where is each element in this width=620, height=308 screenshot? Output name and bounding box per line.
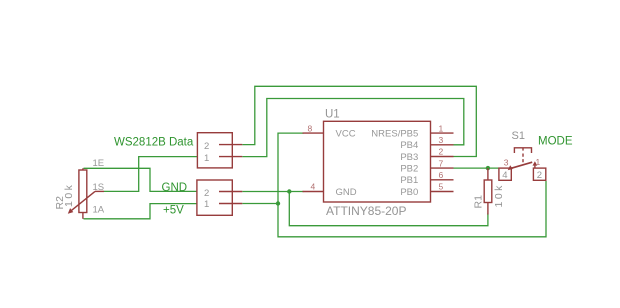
U1 pin 5 stub	[431, 191, 454, 193]
svg-text:7: 7	[439, 158, 444, 168]
R1 bottom stub	[487, 203, 489, 215]
svg-text:2: 2	[204, 188, 209, 199]
svg-text:4: 4	[502, 170, 507, 181]
resistor R1 body	[484, 180, 492, 203]
connector JP top (WS2812B) box	[197, 133, 232, 168]
svg-text:1E: 1E	[93, 158, 105, 169]
op IC U1 box	[324, 121, 431, 202]
svg-text:1: 1	[439, 123, 444, 133]
S1 pin 4 box	[499, 168, 511, 180]
wire pot 1A to +5V connector	[84, 204, 197, 219]
wire pot 1E to GND connector	[84, 168, 197, 191]
svg-text:2: 2	[439, 147, 444, 157]
svg-text:2: 2	[204, 141, 209, 152]
U1 pin 8 VCC stub	[303, 132, 324, 134]
svg-text:1: 1	[204, 153, 209, 164]
svg-text:WS2812B Data: WS2812B Data	[114, 136, 194, 148]
JP bottom pin 2 stub	[219, 191, 242, 193]
svg-text:PB3: PB3	[400, 152, 418, 163]
svg-text:4: 4	[311, 182, 316, 192]
svg-text:10k: 10k	[493, 183, 505, 207]
svg-text:S1: S1	[512, 130, 525, 142]
S1 movable arm	[510, 162, 533, 169]
junction PB2 / R1 / switch	[486, 166, 490, 170]
U1 pin 7 stub	[431, 167, 454, 169]
svg-text:GND: GND	[336, 187, 357, 198]
svg-text:NRES/PB5: NRES/PB5	[371, 128, 418, 139]
R2 pin 1A stub	[82, 213, 84, 219]
svg-text:1S: 1S	[93, 182, 105, 193]
R1 top stub	[487, 168, 489, 180]
wire +5V rail to switch pin2	[278, 181, 546, 237]
svg-text:+5V: +5V	[163, 205, 184, 217]
S1 actuator dashed link	[522, 154, 524, 166]
svg-text:PB1: PB1	[400, 175, 418, 186]
U1 pin 6 stub	[431, 179, 454, 181]
svg-text:3: 3	[439, 135, 444, 145]
svg-text:GND: GND	[162, 182, 188, 194]
R2 wiper arrow	[95, 190, 104, 192]
connector JP bottom (power) box	[197, 180, 232, 215]
svg-text:R1: R1	[473, 195, 485, 209]
wire pot 1S to WS2812B Data net	[104, 157, 197, 192]
svg-text:1A: 1A	[93, 205, 105, 216]
S1 right contact post and arrowhead	[534, 164, 536, 168]
U1 pin 1 stub	[431, 132, 454, 134]
JP top pin 1 stub	[219, 156, 242, 158]
svg-text:5: 5	[439, 182, 444, 192]
wire GND net to U1 pin4	[242, 191, 303, 193]
wire +5V net to U1 VCC	[242, 133, 303, 203]
svg-text:10k: 10k	[63, 183, 75, 207]
JP top pin 2 stub	[219, 144, 242, 146]
svg-text:1: 1	[204, 199, 209, 210]
wire top connector pin2 to U1 PB3	[242, 86, 476, 156]
svg-text:1: 1	[536, 157, 541, 167]
svg-text:PB4: PB4	[400, 140, 418, 151]
svg-text:VCC: VCC	[336, 128, 356, 139]
U1 pin 4 GND stub	[303, 191, 324, 193]
R2 pin 1E stub	[82, 168, 84, 170]
potentiometer R2 body	[79, 170, 87, 213]
svg-text:6: 6	[439, 170, 444, 180]
svg-text:8: 8	[308, 123, 313, 133]
S1 actuator center tick	[522, 148, 524, 151]
wire top connector pin1 to U1 PB4	[242, 99, 463, 157]
svg-text:ATTINY85-20P: ATTINY85-20P	[326, 204, 406, 218]
wire U1 PB2 to R1 top and switch pin3	[454, 167, 499, 169]
S1 pin 2 box	[533, 168, 545, 180]
junction GND at U1 pin4 row	[287, 189, 291, 193]
svg-text:PB0: PB0	[400, 187, 418, 198]
svg-text:U1: U1	[325, 108, 340, 120]
JP bottom pin 1 stub	[219, 203, 242, 205]
U1 pin 3 stub	[431, 144, 454, 146]
junction +5V at connector row	[276, 201, 280, 205]
wire GND rail down to R1 bottom	[289, 192, 488, 226]
svg-text:MODE: MODE	[538, 135, 573, 147]
U1 pin 2 stub	[431, 156, 454, 158]
svg-text:3: 3	[504, 157, 509, 167]
S1 left contact arrowhead	[508, 165, 513, 170]
S1 actuator bracket	[514, 148, 531, 153]
svg-text:PB2: PB2	[400, 163, 418, 174]
svg-text:2: 2	[537, 170, 542, 181]
